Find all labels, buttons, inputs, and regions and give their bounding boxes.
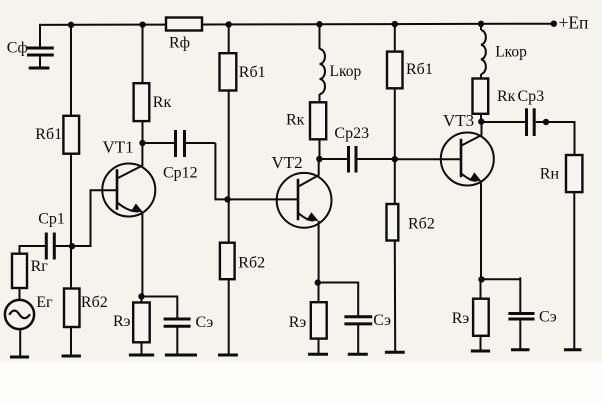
- svg-text:Ег: Ег: [36, 294, 53, 311]
- svg-text:Ср23: Ср23: [334, 125, 369, 142]
- svg-text:Lкор: Lкор: [495, 44, 527, 61]
- svg-text:Rб2: Rб2: [81, 294, 108, 311]
- svg-text:Rб2: Rб2: [408, 216, 435, 233]
- svg-text:Ср12: Ср12: [163, 164, 198, 181]
- svg-text:Rф: Rф: [169, 34, 190, 51]
- svg-text:VT2: VT2: [272, 153, 303, 172]
- svg-text:Cф: Cф: [7, 40, 28, 57]
- svg-text:Ср3: Ср3: [518, 88, 545, 105]
- svg-text:Rн: Rн: [540, 165, 560, 182]
- svg-text:Rг: Rг: [31, 258, 49, 275]
- svg-text:Rк: Rк: [153, 94, 172, 111]
- svg-text:VT3: VT3: [443, 111, 474, 130]
- svg-text:Rб2: Rб2: [238, 254, 265, 271]
- svg-text:Rк: Rк: [286, 111, 305, 128]
- svg-text:Rэ: Rэ: [113, 313, 131, 330]
- svg-text:Lкор: Lкор: [330, 63, 362, 80]
- svg-text:Rэ: Rэ: [289, 314, 307, 331]
- svg-text:VT1: VT1: [103, 137, 134, 156]
- svg-text:Rк: Rк: [497, 88, 516, 105]
- svg-text:Сэ: Сэ: [196, 314, 214, 331]
- svg-text:+Еп: +Еп: [559, 13, 589, 33]
- svg-text:Rб1: Rб1: [239, 64, 266, 81]
- svg-text:Сэ: Сэ: [539, 309, 557, 326]
- svg-text:Ср1: Ср1: [38, 210, 65, 227]
- svg-text:Сэ: Сэ: [373, 312, 391, 329]
- svg-text:Rэ: Rэ: [452, 310, 470, 327]
- svg-text:Rб1: Rб1: [406, 61, 433, 78]
- svg-text:Rб1: Rб1: [35, 126, 62, 143]
